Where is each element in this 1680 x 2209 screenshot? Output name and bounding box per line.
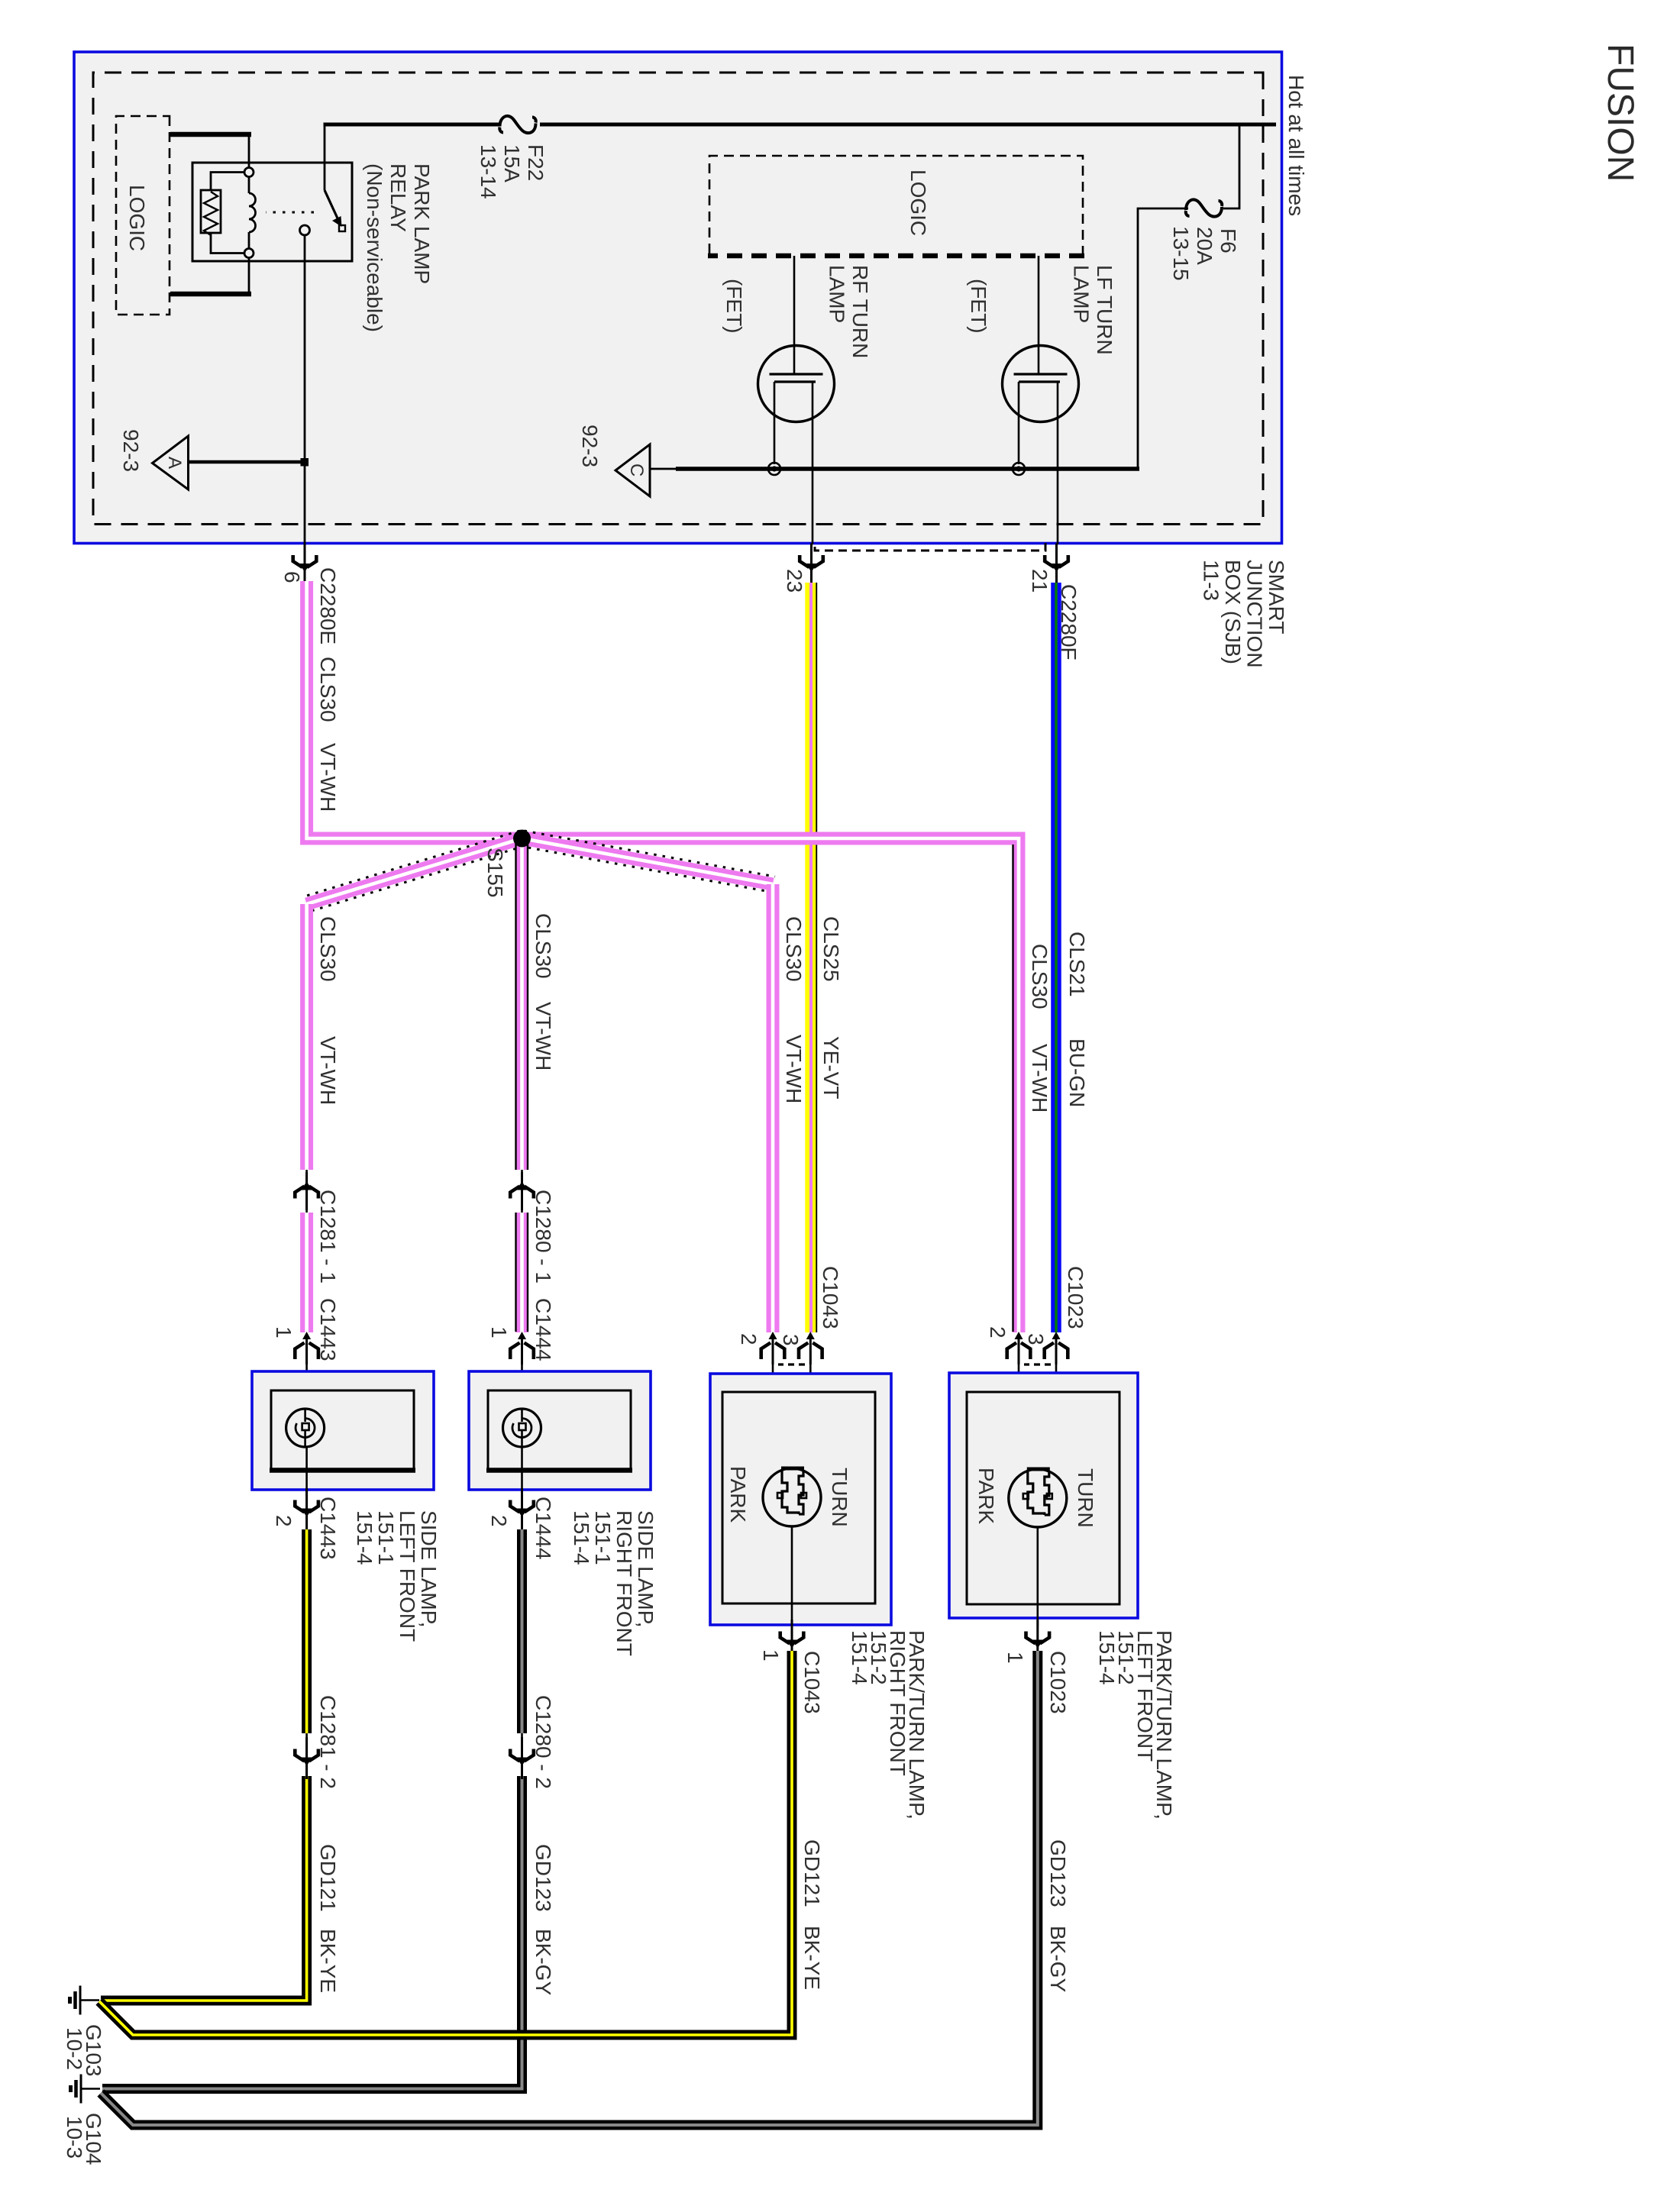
svg-text:VT-WH: VT-WH bbox=[531, 1002, 555, 1071]
svg-text:151-4: 151-4 bbox=[570, 1510, 593, 1565]
wire CLS30 VT-WH to C1043 pin 2 bbox=[767, 884, 780, 1332]
wire: tap to fuse F6 bbox=[1223, 124, 1239, 208]
wire CLS21 BU-GN (blue, pin 21 to C1023 pin 3) bbox=[1051, 583, 1061, 1332]
svg-text:SIDE LAMP,: SIDE LAMP, bbox=[634, 1510, 657, 1628]
relay actuation dotted link bbox=[266, 212, 314, 214]
entry arrow pin 2 bbox=[761, 1332, 785, 1364]
svg-text:SMART: SMART bbox=[1265, 560, 1288, 635]
svg-text:C1443: C1443 bbox=[316, 1497, 340, 1560]
wire GD123 BK-GY to ground bbox=[517, 1529, 527, 1733]
svg-text:CLS30: CLS30 bbox=[316, 657, 340, 722]
svg-text:1: 1 bbox=[487, 1326, 511, 1339]
relay switch blade bbox=[325, 190, 338, 220]
svg-text:1: 1 bbox=[272, 1326, 296, 1339]
exit wire pin 2 bbox=[521, 1447, 523, 1497]
svg-text:VT-WH: VT-WH bbox=[1028, 1044, 1052, 1113]
svg-text:C1281 - 2: C1281 - 2 bbox=[316, 1695, 340, 1789]
svg-text:2: 2 bbox=[487, 1515, 511, 1527]
wire CLS30 VT-WH to C1281-1 and C1443 pin 1 bbox=[300, 904, 313, 1170]
svg-text:BU-GN: BU-GN bbox=[1065, 1038, 1089, 1107]
svg-text:13-14: 13-14 bbox=[477, 144, 500, 199]
wire: logic to relay coil (thick feeds) bbox=[170, 132, 251, 137]
svg-text:92-3: 92-3 bbox=[119, 429, 143, 472]
entry arrow pin 2 bbox=[1007, 1332, 1031, 1364]
SJB dashed border bbox=[93, 73, 1263, 525]
svg-text:1: 1 bbox=[1003, 1652, 1027, 1664]
svg-text:LOGIC: LOGIC bbox=[125, 185, 149, 251]
in-line connector C1280-1 bbox=[521, 1170, 523, 1213]
dashed bracket pins 2-3 bbox=[778, 1363, 805, 1365]
pin 21 exit arrow C2280F bbox=[1045, 544, 1068, 586]
svg-text:151-4: 151-4 bbox=[848, 1630, 871, 1685]
svg-text:JUNCTION: JUNCTION bbox=[1243, 560, 1267, 668]
svg-text:GD121: GD121 bbox=[800, 1839, 824, 1907]
svg-text:1: 1 bbox=[759, 1649, 783, 1662]
svg-text:C2280E: C2280E bbox=[316, 567, 340, 644]
wire GD121 BK-YE to ground G103 bbox=[99, 1651, 792, 2035]
wire: F6 to FET bus bbox=[1138, 208, 1188, 469]
exit wire pin 1 bbox=[1037, 1527, 1039, 1626]
exit wire pin 1 bbox=[791, 1526, 793, 1626]
svg-text:CLS25: CLS25 bbox=[819, 916, 843, 982]
svg-text:15A: 15A bbox=[500, 144, 524, 182]
bulb bbox=[286, 1409, 325, 1447]
wire: splice branch up to lamp LF pin 2 line bbox=[522, 838, 1019, 1332]
in-line connector C1280-2 bbox=[521, 1733, 523, 1776]
svg-text:13-15: 13-15 bbox=[1169, 226, 1193, 281]
svg-text:CLS21: CLS21 bbox=[1065, 932, 1089, 997]
svg-text:151-1: 151-1 bbox=[591, 1510, 615, 1565]
svg-text:21: 21 bbox=[1028, 569, 1052, 593]
pin 23 exit arrow bbox=[800, 544, 823, 586]
svg-text:C1281 - 1: C1281 - 1 bbox=[316, 1190, 340, 1284]
svg-text:SIDE LAMP,: SIDE LAMP, bbox=[417, 1510, 441, 1628]
svg-text:151-4: 151-4 bbox=[1095, 1630, 1119, 1685]
svg-text:92-3: 92-3 bbox=[578, 425, 602, 467]
svg-text:GD123: GD123 bbox=[531, 1844, 555, 1912]
relay PARK LAMP RELAY box bbox=[192, 163, 352, 261]
wire CLS25 YE-VT (yellow, pin 23 to C1043 pin 3) bbox=[816, 583, 817, 1332]
svg-text:2: 2 bbox=[986, 1326, 1010, 1339]
svg-text:Hot at all times: Hot at all times bbox=[1284, 75, 1308, 216]
svg-text:C1280 - 2: C1280 - 2 bbox=[531, 1695, 555, 1789]
svg-text:VT-WH: VT-WH bbox=[316, 1036, 340, 1105]
svg-text:RIGHT FRONT: RIGHT FRONT bbox=[612, 1510, 636, 1656]
svg-text:PARK: PARK bbox=[726, 1466, 750, 1523]
svg-text:LOGIC: LOGIC bbox=[906, 170, 930, 236]
dashed connector bracket below SJB (pins 21-23) bbox=[815, 543, 1045, 551]
smart junction box SJB (blue box) bbox=[74, 52, 1282, 544]
fuse F6 20A bbox=[1186, 199, 1222, 216]
svg-text:TURN: TURN bbox=[828, 1468, 851, 1527]
svg-text:F6: F6 bbox=[1216, 228, 1240, 254]
component box SIDE LAMP LEFT FRONT bbox=[252, 1371, 434, 1490]
relay common contact bbox=[300, 225, 310, 235]
svg-text:151-4: 151-4 bbox=[353, 1510, 376, 1565]
svg-text:C1023: C1023 bbox=[1064, 1266, 1087, 1329]
entry arrow C1043 pin 3 bbox=[799, 1332, 822, 1364]
svg-text:A: A bbox=[164, 457, 185, 469]
ground G103 bbox=[70, 1986, 100, 2015]
svg-text:20A: 20A bbox=[1193, 227, 1216, 265]
svg-text:10-2: 10-2 bbox=[63, 2027, 86, 2070]
svg-text:23: 23 bbox=[783, 569, 806, 593]
component box PARK/TURN LAMP RIGHT FRONT bbox=[710, 1374, 891, 1625]
dual filament bulb bbox=[1009, 1469, 1067, 1527]
svg-text:LAMP: LAMP bbox=[1070, 265, 1094, 323]
splice node S155 bbox=[513, 830, 531, 848]
entry arrow C1444 pin 1 bbox=[510, 1332, 534, 1364]
svg-text:2: 2 bbox=[737, 1333, 761, 1345]
svg-text:2: 2 bbox=[272, 1515, 296, 1527]
svg-text:CLS30: CLS30 bbox=[1028, 944, 1052, 1009]
svg-text:GD123: GD123 bbox=[1046, 1839, 1070, 1907]
triangle A bbox=[153, 436, 189, 489]
entry arrow C1443 pin 1 bbox=[295, 1332, 318, 1364]
svg-text:LAMP: LAMP bbox=[825, 265, 849, 323]
entry arrow C1023 pin 3 bbox=[1045, 1332, 1068, 1364]
svg-text:(FET): (FET) bbox=[967, 279, 990, 334]
svg-text:(Non-serviceable): (Non-serviceable) bbox=[363, 163, 386, 332]
relay switch input wire bbox=[324, 124, 326, 190]
wire: feed to triangle A (thick) bbox=[189, 460, 305, 464]
svg-text:C1023: C1023 bbox=[1046, 1651, 1070, 1714]
circled junction on bus bbox=[1013, 463, 1025, 475]
svg-text:3: 3 bbox=[779, 1334, 803, 1346]
svg-text:CLS30: CLS30 bbox=[316, 916, 340, 982]
transistor FET Q1 (LF turn lamp) bbox=[1003, 346, 1079, 422]
wire: splice straight branch to side lamp RF (C1444 pin 1) bbox=[515, 838, 528, 1170]
bulb bbox=[503, 1409, 541, 1447]
relay coil line bbox=[248, 132, 250, 167]
svg-text:PARK: PARK bbox=[974, 1468, 998, 1524]
wire GD123 BK-GY to ground G104 bbox=[101, 1651, 1038, 2125]
svg-text:C1444: C1444 bbox=[531, 1497, 555, 1560]
wire: power bus (vertical, hot at all times) bbox=[540, 123, 1276, 127]
svg-text:151-1: 151-1 bbox=[374, 1510, 398, 1565]
svg-text:10-3: 10-3 bbox=[63, 2116, 86, 2159]
svg-text:F22: F22 bbox=[524, 144, 548, 181]
wire: FET source bus (thick) bbox=[676, 467, 1139, 470]
svg-text:BOX (SJB): BOX (SJB) bbox=[1221, 560, 1245, 664]
svg-text:BK-GY: BK-GY bbox=[1046, 1926, 1070, 1992]
svg-text:C1280 - 1: C1280 - 1 bbox=[531, 1190, 555, 1284]
relay coil arcs bbox=[249, 193, 255, 232]
svg-text:LF TURN: LF TURN bbox=[1093, 265, 1116, 355]
svg-text:RF TURN: RF TURN bbox=[848, 265, 872, 358]
pin 6 exit arrow C2280E bbox=[293, 544, 317, 586]
svg-text:BK-YE: BK-YE bbox=[316, 1929, 340, 1993]
exit wire pin 2 bbox=[305, 1447, 308, 1497]
dual filament bulb bbox=[763, 1468, 821, 1526]
svg-text:TURN: TURN bbox=[1074, 1468, 1097, 1528]
svg-text:CLS30: CLS30 bbox=[782, 916, 806, 982]
svg-text:LEFT FRONT: LEFT FRONT bbox=[396, 1510, 419, 1642]
svg-text:YE-VT: YE-VT bbox=[819, 1036, 843, 1099]
ground G104 bbox=[71, 2075, 101, 2104]
component box PARK/TURN LAMP LEFT FRONT bbox=[949, 1373, 1138, 1618]
svg-text:(FET): (FET) bbox=[722, 279, 746, 334]
svg-text:BK-GY: BK-GY bbox=[531, 1929, 555, 1995]
triangle C bbox=[615, 444, 650, 496]
svg-text:S155: S155 bbox=[483, 848, 507, 897]
svg-text:3: 3 bbox=[1024, 1333, 1048, 1345]
fuse F22 15A bbox=[499, 116, 535, 133]
wire CLS30 VT-WH (pin 6 feed to splice) bbox=[307, 581, 522, 838]
svg-text:CLS30: CLS30 bbox=[531, 913, 555, 979]
transistor FET Q2 (RF turn lamp) bbox=[758, 346, 835, 422]
svg-text:VT-WH: VT-WH bbox=[316, 743, 340, 812]
svg-text:VT-WH: VT-WH bbox=[782, 1035, 806, 1103]
svg-text:GD121: GD121 bbox=[316, 1844, 340, 1912]
svg-text:RELAY: RELAY bbox=[386, 163, 410, 232]
wire: relay output bbox=[304, 235, 306, 557]
wire: splice diagonal to side lamp LF line (twisted) bbox=[305, 831, 525, 912]
wire GD121 BK-YE to ground bbox=[302, 1529, 312, 1733]
relay resistor (parallel) bbox=[211, 173, 244, 191]
svg-text:C1043: C1043 bbox=[800, 1651, 824, 1714]
in-line connector C1281-1 bbox=[305, 1170, 308, 1213]
svg-text:11-3: 11-3 bbox=[1200, 560, 1223, 601]
svg-text:C: C bbox=[626, 463, 647, 476]
svg-text:BK-YE: BK-YE bbox=[800, 1926, 824, 1990]
in-line connector C1281-2 bbox=[305, 1733, 308, 1776]
wire: splice diagonal to park/turn RF pin 2 line (twisted) bbox=[520, 831, 776, 892]
svg-text:PARK LAMP: PARK LAMP bbox=[410, 163, 434, 284]
circled junction on bus bbox=[768, 463, 780, 475]
svg-text:FUSION: FUSION bbox=[1600, 44, 1640, 182]
LOGIC box (relay driver) bbox=[116, 116, 170, 315]
junction node bbox=[301, 458, 309, 467]
dashed bracket pins 2-3 bbox=[1024, 1363, 1051, 1365]
component box SIDE LAMP RIGHT FRONT bbox=[469, 1371, 651, 1490]
LOGIC box (FET driver) bbox=[709, 156, 1083, 256]
svg-text:C1043: C1043 bbox=[819, 1266, 842, 1329]
